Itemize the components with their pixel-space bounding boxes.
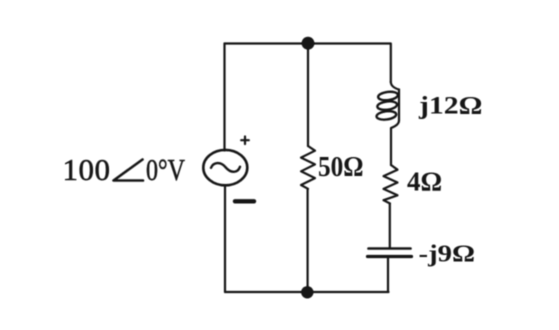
wire middle branch top	[307, 44, 309, 147]
svg-text:-j9Ω: -j9Ω	[419, 242, 476, 268]
angle symbol of source label	[114, 160, 144, 181]
inductor L1 right rail	[398, 90, 400, 121]
node dot top junction	[302, 37, 315, 50]
capacitor C1 top plate	[369, 247, 411, 250]
wire capacitor bottom lead	[387, 258, 389, 293]
svg-text:0°V: 0°V	[146, 152, 185, 187]
plus polarity mark	[241, 137, 249, 145]
resistor R2 4ohm zigzag	[384, 165, 398, 204]
inductor L1 turn 3	[376, 110, 397, 121]
inductor L1 j12ohm leads	[391, 82, 399, 165]
inductor L1 turn 2	[377, 100, 398, 111]
inductor L1 turn 1	[378, 91, 399, 102]
capacitor C1 bottom plate	[368, 255, 412, 258]
sine wave inside source	[211, 163, 240, 172]
wire left vertical top	[223, 44, 225, 151]
voltage source V1 100&#8736;0&#176;V	[203, 150, 247, 185]
svg-text:4Ω: 4Ω	[407, 167, 442, 197]
node dot bottom junction	[301, 286, 313, 298]
wire bottom rail	[225, 291, 389, 293]
wire left vertical bottom	[224, 185, 226, 292]
wire top rail	[225, 42, 391, 44]
wire right branch between resistor and capacitor	[389, 204, 391, 248]
resistor R1 50ohm zigzag	[301, 146, 315, 189]
wire right vertical top	[390, 44, 392, 83]
svg-text:j12Ω: j12Ω	[418, 93, 483, 120]
svg-text:50Ω: 50Ω	[318, 152, 364, 183]
minus polarity mark	[235, 199, 254, 203]
svg-text:100: 100	[63, 152, 111, 187]
wire middle branch bottom	[307, 189, 309, 292]
